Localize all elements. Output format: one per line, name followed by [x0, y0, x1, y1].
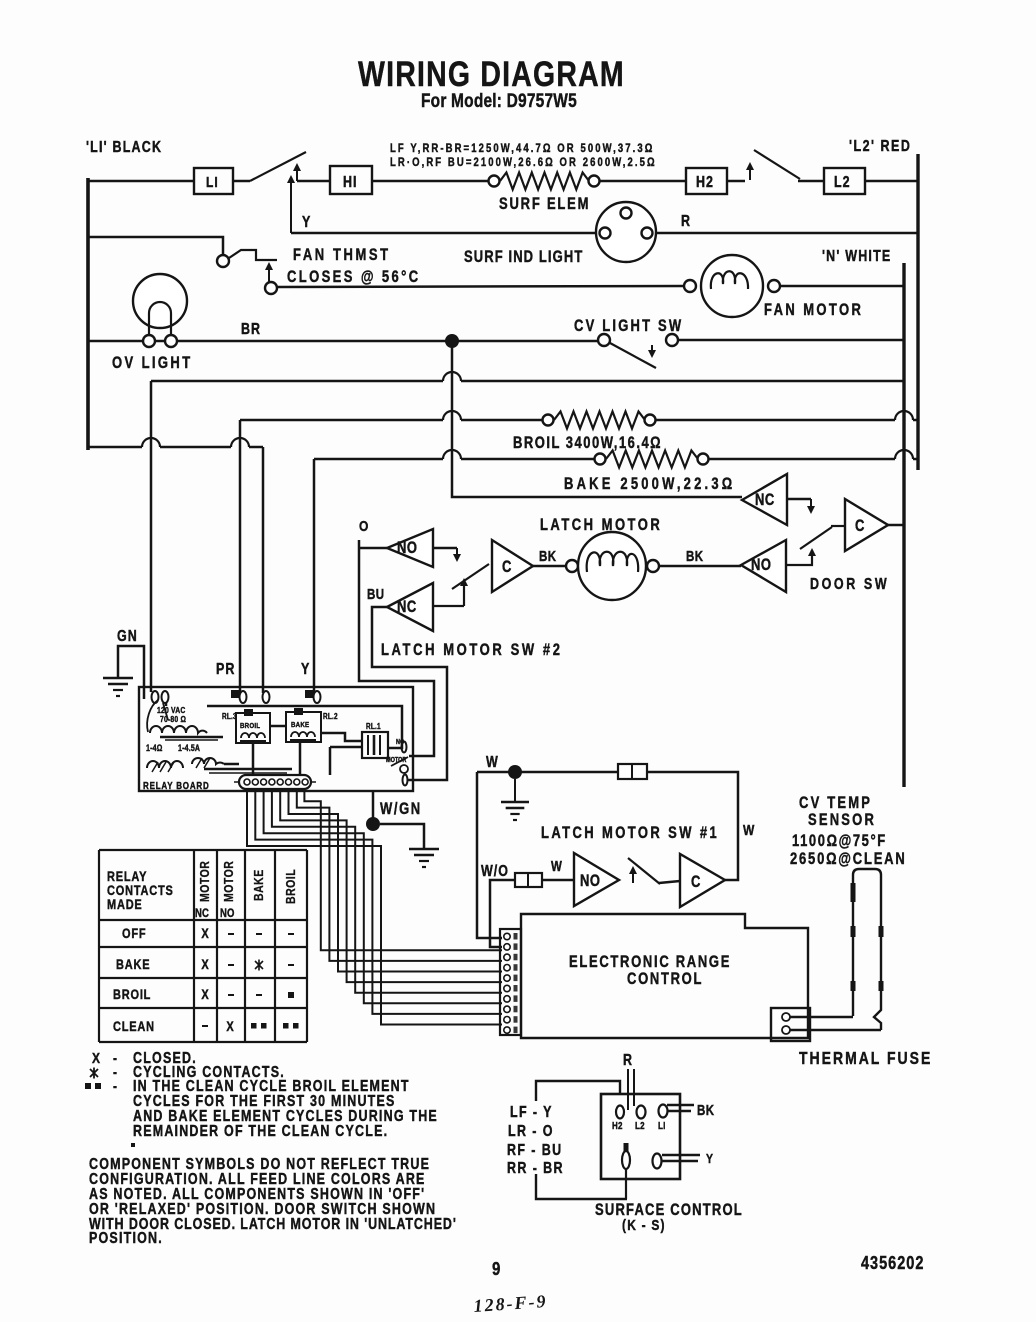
svg-text:DOOR SW: DOOR SW	[810, 575, 889, 593]
fan thmst terminal 2	[265, 282, 277, 294]
board terminal PR	[231, 690, 241, 698]
surf elem left terminal	[489, 176, 500, 187]
fan thmst terminal 1	[217, 255, 229, 267]
svg-text:X: X	[92, 1050, 101, 1067]
wire broil to L2 bus	[656, 419, 895, 422]
wire broil row left	[240, 419, 443, 422]
svg-text:BROIL: BROIL	[240, 722, 261, 730]
wire fan motor to N bus	[780, 285, 904, 288]
latch sw1 common C	[680, 854, 725, 907]
svg-text:WIRING DIAGRAM: WIRING DIAGRAM	[358, 54, 625, 94]
svg-text:R: R	[623, 1051, 633, 1069]
svg-text:BROIL: BROIL	[283, 869, 298, 904]
wire LI to switch	[233, 180, 250, 183]
svg-text:HI: HI	[343, 173, 357, 191]
board inner wires	[270, 725, 286, 728]
svg-text:BAKE 2500W,22.3Ω: BAKE 2500W,22.3Ω	[564, 476, 735, 494]
wire BK double	[667, 1104, 694, 1106]
svg-text:X: X	[201, 957, 209, 972]
board terminal t0b	[162, 691, 169, 703]
svg-text:NO: NO	[220, 907, 235, 920]
thermal fuse box	[771, 1008, 810, 1041]
svg-text:Y: Y	[301, 660, 310, 678]
wire surf elem to H2	[600, 180, 686, 183]
svg-text:GN: GN	[117, 627, 138, 645]
svg-text:NO: NO	[397, 540, 417, 558]
svg-text:SURF IND LIGHT: SURF IND LIGHT	[464, 249, 583, 267]
wire drop to relay board t3	[262, 447, 265, 693]
svg-text:CLEAN: CLEAN	[113, 1019, 155, 1034]
svg-text:RL.3: RL.3	[222, 711, 237, 721]
svg-text:L2: L2	[834, 173, 851, 191]
fuse W/O	[515, 873, 542, 887]
terminal box LI	[194, 168, 233, 194]
svg-text:BAKE: BAKE	[251, 869, 266, 901]
cv light switch	[598, 334, 610, 346]
wire R double	[627, 1069, 629, 1110]
svg-text:H2: H2	[612, 1120, 623, 1131]
svg-text:NO: NO	[580, 873, 600, 891]
broil left terminal	[543, 415, 554, 426]
wire H1 to surf elem	[372, 180, 490, 183]
wire arrow to H1	[297, 180, 330, 183]
svg-text:LR·O,RF BU=2100W,26.6Ω OR 26: LR·O,RF BU=2100W,26.6Ω OR 2600W,2.5Ω	[390, 156, 657, 169]
latch sw2 blade	[433, 605, 464, 607]
svg-text:X: X	[201, 987, 209, 1002]
svg-text:LR - O: LR - O	[508, 1122, 554, 1140]
relay RL2 box	[286, 712, 321, 742]
svg-text:Y: Y	[706, 1151, 713, 1166]
wire indicator to right bus R	[652, 232, 918, 235]
svg-text:NO: NO	[751, 557, 771, 575]
wire L1 bus oven light row	[88, 340, 600, 343]
svg-text:O: O	[359, 518, 369, 535]
svg-text:ELECTRONIC RANGE: ELECTRONIC RANGE	[569, 954, 731, 972]
wire W/O to control	[490, 880, 515, 947]
terminal box L2	[824, 168, 865, 194]
svg-text:MOTOR: MOTOR	[197, 861, 212, 902]
wire fan thmst to fan motor	[277, 286, 684, 287]
svg-text:REMAINDER OF THE CLEAN CYCLE.: REMAINDER OF THE CLEAN CYCLE.	[133, 1122, 388, 1140]
wire L1 bus row to relay	[88, 446, 142, 449]
relay RL1 contacts	[402, 742, 407, 753]
svg-text:W: W	[486, 753, 499, 771]
strip end ticks	[234, 781, 238, 783]
svg-text:RELAY BOARD: RELAY BOARD	[143, 780, 210, 791]
surface switch blade left	[250, 152, 306, 181]
svg-text:R: R	[681, 212, 691, 230]
left bus L1 vertical	[86, 178, 90, 450]
svg-text:MOTOR: MOTOR	[386, 756, 407, 764]
svg-text:NC: NC	[755, 492, 775, 510]
surf elem right terminal	[589, 176, 600, 187]
svg-text:NC: NC	[397, 599, 417, 617]
svg-text:1-4Ω: 1-4Ω	[146, 743, 163, 753]
svg-text:LI: LI	[658, 1120, 666, 1131]
wire fuse to NO	[542, 879, 574, 882]
bake left terminal	[595, 454, 606, 465]
svg-text:9: 9	[492, 1258, 500, 1279]
relay contact NO door sw	[741, 540, 786, 592]
junction node BR	[445, 334, 459, 348]
wire junction down to latch NC	[452, 341, 742, 497]
board terminal Y	[305, 690, 314, 698]
wire drop Y to relay board	[313, 459, 316, 693]
svg-text:BK: BK	[686, 548, 704, 565]
note cycling	[90, 1068, 98, 1079]
latch sw1 blade arrow	[632, 868, 634, 883]
svg-text:L2: L2	[635, 1120, 645, 1131]
bus N white vertical	[902, 263, 905, 787]
wire C to N bus	[888, 524, 904, 527]
svg-text:LF Y,RR-BR=1250W,44.7Ω OR 5: LF Y,RR-BR=1250W,44.7Ω OR 500W,37.3Ω	[390, 142, 654, 155]
wire cv light sw to N bus	[678, 339, 904, 342]
surface control box	[601, 1094, 680, 1179]
switch arrow	[296, 165, 298, 181]
svg-text:-: -	[113, 1078, 118, 1095]
svg-text:For Model: D9757W5: For Model: D9757W5	[421, 89, 577, 111]
wire board to W/GN node	[372, 791, 375, 820]
svg-text:MADE: MADE	[107, 897, 143, 912]
wire NC out with arrow	[787, 498, 811, 501]
svg-text:'N' WHITE: 'N' WHITE	[822, 247, 891, 265]
relay contact NO latch sw2	[387, 529, 433, 567]
broil right terminal	[645, 415, 656, 426]
node W/GN	[366, 817, 380, 831]
board terminal strip	[239, 775, 311, 789]
ov light lamp	[133, 274, 187, 328]
board terminal t2	[263, 691, 270, 703]
wire W down to control	[477, 772, 502, 938]
svg-text:BK: BK	[697, 1102, 715, 1119]
svg-text:W: W	[551, 858, 562, 875]
wire GN	[118, 646, 144, 699]
svg-text:LATCH MOTOR: LATCH MOTOR	[540, 517, 662, 535]
svg-text:Y: Y	[302, 213, 311, 231]
wire drop PR to relay board	[239, 420, 242, 693]
resistor BAKE element	[606, 451, 698, 468]
svg-text:THERMAL FUSE: THERMAL FUSE	[799, 1050, 932, 1069]
wire O down	[359, 540, 434, 756]
wire drop to relay board t1	[150, 381, 153, 692]
relay contact NC latch sw2	[387, 583, 433, 631]
wire switch to L2	[798, 180, 824, 183]
wire blade to C	[659, 881, 680, 883]
fan thmst bimetal	[229, 250, 277, 260]
svg-text:1-4.5A: 1-4.5A	[178, 743, 200, 753]
svg-text:(K - S): (K - S)	[622, 1217, 666, 1234]
svg-text:BROIL: BROIL	[113, 987, 151, 1002]
wire H2 to switch	[727, 180, 745, 183]
wire C to latch motor	[533, 565, 566, 568]
svg-text:RR - BR: RR - BR	[507, 1159, 564, 1177]
svg-text:CLOSES @ 56°C: CLOSES @ 56°C	[287, 269, 421, 287]
svg-text:FAN MOTOR: FAN MOTOR	[764, 302, 863, 320]
relay coil 2	[192, 758, 224, 764]
wire L2 to right bus	[865, 180, 918, 183]
svg-text:RL.2: RL.2	[323, 711, 338, 721]
terminal box H2	[686, 168, 727, 194]
surface control terminal Y	[653, 1154, 662, 1169]
svg-text:70-80 Ω: 70-80 Ω	[160, 714, 186, 724]
svg-text:LATCH MOTOR SW #1: LATCH MOTOR SW #1	[541, 825, 719, 843]
svg-text:RL.1: RL.1	[366, 721, 381, 731]
wire bake row left	[314, 458, 443, 461]
svg-text:'LI' BLACK: 'LI' BLACK	[86, 138, 162, 156]
wire fuse to corner	[647, 772, 738, 880]
svg-text:H2: H2	[696, 173, 714, 191]
note clean cycle	[85, 1083, 91, 1089]
surface control bracket	[536, 1081, 620, 1101]
latch sw2 common C	[492, 540, 533, 592]
board terminal t0	[152, 691, 159, 703]
svg-text:1100Ω@75°F: 1100Ω@75°F	[792, 833, 887, 851]
door sw common C	[845, 499, 888, 551]
svg-text:SURFACE CONTROL: SURFACE CONTROL	[595, 1202, 743, 1220]
wire W ground stem	[514, 779, 516, 801]
fan motor	[684, 280, 696, 292]
surface switch blade right	[754, 150, 800, 179]
svg-text:W/GN: W/GN	[380, 801, 422, 819]
svg-text:C: C	[691, 874, 701, 892]
svg-text:LI: LI	[206, 174, 219, 191]
fan thmst arrow	[268, 264, 270, 284]
svg-text:MOTOR: MOTOR	[221, 861, 236, 902]
svg-text:OFF: OFF	[122, 926, 146, 941]
relay contacts table	[99, 849, 307, 851]
wire Y double	[662, 1154, 700, 1156]
wire fuse to sensor left	[790, 1016, 853, 1019]
ERC terminal strip	[500, 929, 521, 1035]
svg-text:CV LIGHT SW: CV LIGHT SW	[574, 318, 683, 336]
resistor BROIL element	[554, 412, 645, 429]
wire L1 bus to fan thmst	[88, 237, 223, 255]
right bus L2 vertical	[916, 154, 919, 470]
wire fuse to sensor right	[790, 1029, 881, 1032]
svg-text:NC: NC	[195, 907, 209, 920]
electronic range control box	[521, 914, 808, 1038]
wire Y-node	[290, 177, 292, 233]
surface control terminal H	[624, 1143, 629, 1153]
svg-text:C: C	[502, 559, 512, 577]
cv temp sensor body	[853, 869, 881, 1030]
svg-text:C: C	[855, 518, 865, 536]
svg-text:BU: BU	[367, 586, 385, 603]
right switch arrow	[749, 164, 751, 180]
ground W/GN	[409, 848, 439, 851]
svg-text:BK: BK	[539, 548, 557, 565]
svg-text:2650Ω@CLEAN: 2650Ω@CLEAN	[790, 851, 907, 869]
svg-text:LF - Y: LF - Y	[510, 1103, 553, 1121]
wire W horizontal	[477, 771, 618, 774]
terminal box H1	[330, 166, 372, 194]
svg-text:BR: BR	[241, 320, 261, 338]
svg-text:SENSOR: SENSOR	[808, 812, 876, 830]
wire BU path to relay board	[372, 607, 447, 780]
svg-text:BAKE: BAKE	[116, 957, 150, 972]
node W junction	[508, 765, 522, 779]
latch motor coil	[566, 560, 578, 572]
relay contact NC bake-broil	[742, 474, 787, 525]
svg-text:POSITION.: POSITION.	[89, 1229, 163, 1247]
wire bundle relay board to control	[247, 791, 502, 1025]
svg-text:CONTROL: CONTROL	[627, 971, 703, 989]
surf ind light lamp	[596, 202, 656, 262]
svg-text:W: W	[743, 822, 755, 839]
svg-text:'L2' RED: 'L2' RED	[849, 137, 911, 155]
svg-text:BAKE: BAKE	[291, 721, 309, 729]
relay board outline	[139, 687, 413, 791]
surface control terminals H2 L2 LI	[616, 1106, 624, 1119]
ground W	[501, 801, 529, 804]
bake right terminal	[698, 454, 709, 465]
door sw blade and arrow	[786, 550, 812, 565]
svg-text:PR: PR	[216, 660, 235, 678]
svg-text:OV LIGHT: OV LIGHT	[112, 355, 193, 373]
svg-text:SURF ELEM: SURF ELEM	[499, 196, 590, 214]
ground GN	[103, 677, 133, 680]
wire W/GN to ground	[380, 824, 424, 848]
svg-text:4356202: 4356202	[861, 1254, 924, 1274]
svg-text:W/O: W/O	[481, 862, 509, 880]
wire row4 to N bus	[151, 380, 443, 383]
svg-text:CV TEMP: CV TEMP	[799, 795, 872, 813]
svg-text:LATCH MOTOR SW #2: LATCH MOTOR SW #2	[381, 642, 563, 660]
wire Y line to indicator light	[291, 232, 600, 235]
svg-text:FAN THMST: FAN THMST	[293, 247, 391, 265]
wire latch motor to door NO	[659, 565, 741, 568]
wire bake to L2 bus	[709, 458, 895, 461]
fuse W	[618, 764, 647, 779]
wire NO out arrow	[433, 547, 457, 550]
svg-text:X: X	[226, 1019, 234, 1034]
wire H to bracket	[625, 1169, 627, 1199]
board inner wire top	[207, 706, 402, 748]
wire L1 to box LI	[88, 180, 194, 183]
svg-text:X: X	[201, 926, 209, 941]
resistor SURF ELEM	[500, 173, 589, 190]
latch sw1 contact NO	[574, 853, 619, 906]
svg-text:RF - BU: RF - BU	[507, 1141, 563, 1159]
